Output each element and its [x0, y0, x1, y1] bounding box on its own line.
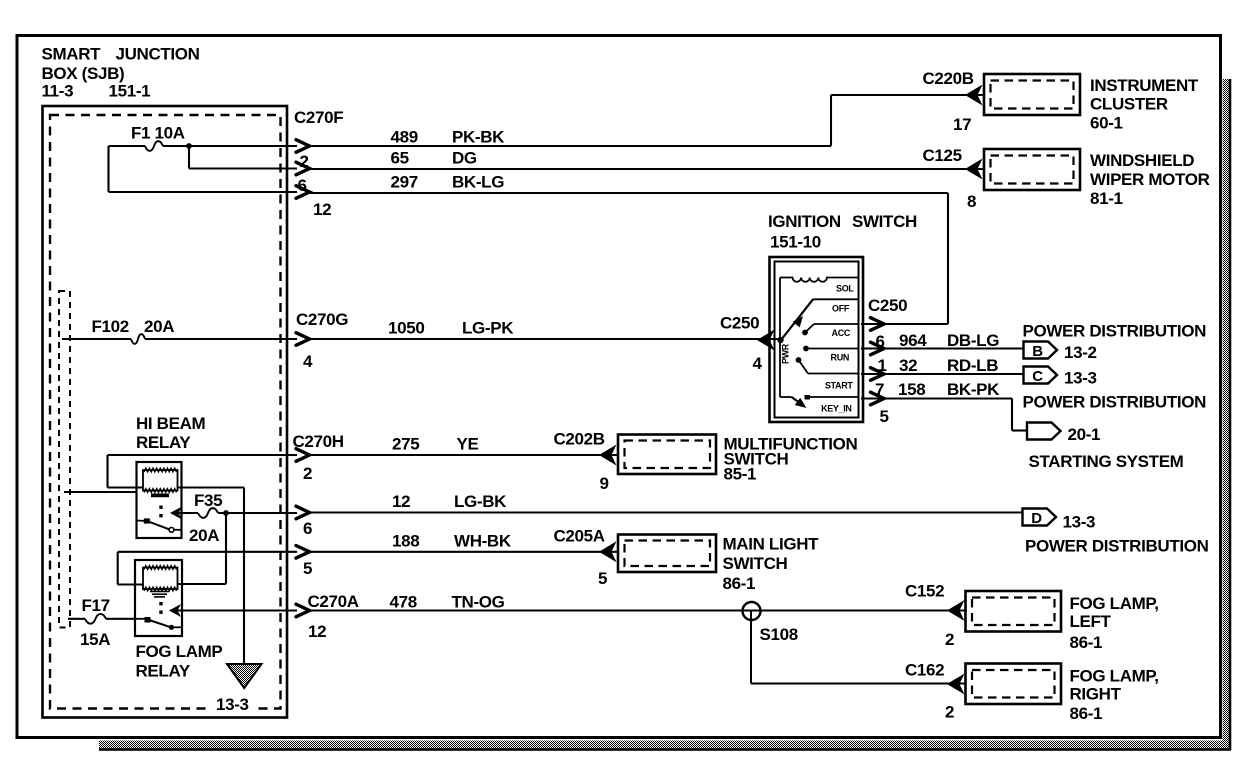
svg-text:ACC: ACC	[832, 328, 851, 338]
svg-text:POWER DISTRIBUTION: POWER DISTRIBUTION	[1023, 393, 1207, 412]
svg-text:LG-PK: LG-PK	[462, 319, 514, 338]
svg-text:7: 7	[875, 380, 884, 399]
svg-text:LG-BK: LG-BK	[454, 492, 507, 511]
svg-text:13-3: 13-3	[216, 695, 249, 714]
svg-text:POWER DISTRIBUTION: POWER DISTRIBUTION	[1023, 322, 1207, 341]
svg-text:9: 9	[600, 474, 609, 493]
svg-text:POWER DISTRIBUTION: POWER DISTRIBUTION	[1025, 537, 1209, 556]
svg-text:RD-LB: RD-LB	[947, 356, 998, 375]
svg-text:C162: C162	[905, 661, 944, 680]
svg-text:FOG LAMP: FOG LAMP	[136, 642, 223, 661]
svg-text:5: 5	[303, 559, 312, 578]
svg-text:C205A: C205A	[554, 527, 605, 546]
svg-text:C202B: C202B	[554, 430, 605, 449]
svg-text:275: 275	[392, 435, 419, 454]
svg-text:1: 1	[878, 356, 887, 375]
svg-text:60-1: 60-1	[1090, 114, 1123, 133]
svg-text:17: 17	[953, 115, 971, 134]
svg-text:C250: C250	[868, 296, 907, 315]
svg-text:DG: DG	[452, 149, 477, 168]
svg-text:PWR: PWR	[781, 343, 791, 364]
svg-text:C250: C250	[720, 314, 759, 333]
svg-text:6: 6	[303, 519, 312, 538]
svg-text:BK-PK: BK-PK	[947, 380, 1000, 399]
svg-text:478: 478	[390, 593, 417, 612]
svg-text:C: C	[1032, 368, 1043, 385]
svg-text:6: 6	[876, 332, 885, 351]
svg-text:F35: F35	[194, 491, 222, 510]
svg-text:FOG LAMP,: FOG LAMP,	[1070, 594, 1159, 613]
svg-text:158: 158	[898, 380, 925, 399]
svg-text:13-2: 13-2	[1064, 343, 1097, 362]
svg-text:STARTING SYSTEM: STARTING SYSTEM	[1029, 452, 1184, 471]
svg-text:IGNITION: IGNITION	[768, 212, 841, 231]
svg-text:489: 489	[391, 128, 418, 147]
svg-text:CLUSTER: CLUSTER	[1090, 95, 1168, 114]
svg-text:SWITCH: SWITCH	[723, 554, 788, 573]
svg-text:WIPER MOTOR: WIPER MOTOR	[1090, 170, 1210, 189]
svg-text:13-3: 13-3	[1064, 369, 1097, 388]
svg-text:86-1: 86-1	[723, 574, 756, 593]
svg-text:HI BEAM: HI BEAM	[136, 414, 206, 433]
svg-text:BK-LG: BK-LG	[452, 173, 504, 192]
svg-text:C270G: C270G	[296, 310, 348, 329]
svg-text:20A: 20A	[144, 317, 174, 336]
svg-text:FOG LAMP,: FOG LAMP,	[1070, 667, 1159, 686]
svg-text:86-1: 86-1	[1070, 704, 1103, 723]
svg-text:151-1: 151-1	[109, 82, 151, 101]
svg-text:85-1: 85-1	[724, 465, 757, 484]
svg-text:C270A: C270A	[308, 592, 359, 611]
svg-text:TN-OG: TN-OG	[452, 593, 505, 612]
svg-text:WH-BK: WH-BK	[454, 532, 512, 551]
svg-text:12: 12	[392, 492, 410, 511]
svg-text:151-10: 151-10	[770, 233, 821, 252]
svg-text:8: 8	[967, 192, 976, 211]
svg-text:2: 2	[945, 630, 954, 649]
svg-text:F17: F17	[82, 596, 110, 615]
svg-text:15A: 15A	[80, 630, 110, 649]
svg-text:1050: 1050	[388, 319, 424, 338]
svg-text:INSTRUMENT: INSTRUMENT	[1090, 76, 1199, 95]
svg-text:DB-LG: DB-LG	[947, 331, 999, 350]
svg-text:SMART: SMART	[42, 45, 102, 64]
svg-text:2: 2	[300, 152, 309, 171]
svg-text:S108: S108	[760, 625, 798, 644]
svg-text:12: 12	[308, 622, 326, 641]
svg-text:81-1: 81-1	[1090, 189, 1123, 208]
svg-text:RIGHT: RIGHT	[1070, 685, 1122, 704]
svg-text:MAIN LIGHT: MAIN LIGHT	[723, 535, 820, 554]
svg-text:188: 188	[392, 532, 419, 551]
svg-text:32: 32	[899, 356, 917, 375]
svg-text:6: 6	[298, 176, 307, 195]
svg-text:START: START	[825, 381, 853, 391]
svg-text:B: B	[1032, 343, 1043, 360]
svg-text:C270H: C270H	[293, 432, 344, 451]
svg-text:SWITCH: SWITCH	[852, 212, 917, 231]
svg-text:WINDSHIELD: WINDSHIELD	[1090, 151, 1194, 170]
svg-text:65: 65	[391, 149, 409, 168]
svg-text:F1 10A: F1 10A	[131, 124, 185, 143]
svg-text:D: D	[1031, 510, 1042, 527]
svg-text:RELAY: RELAY	[136, 662, 191, 681]
svg-text:13-3: 13-3	[1063, 513, 1096, 532]
svg-text:2: 2	[303, 464, 312, 483]
svg-text:4: 4	[303, 352, 313, 371]
svg-text:F102: F102	[92, 317, 129, 336]
svg-text:964: 964	[899, 331, 927, 350]
svg-text:5: 5	[880, 407, 889, 426]
svg-text:KEY_IN: KEY_IN	[821, 404, 851, 414]
svg-text:JUNCTION: JUNCTION	[116, 45, 200, 64]
svg-text:LEFT: LEFT	[1070, 612, 1112, 631]
svg-text:C270F: C270F	[294, 108, 343, 127]
svg-text:C152: C152	[905, 582, 944, 601]
svg-text:5: 5	[598, 569, 607, 588]
svg-text:20A: 20A	[189, 526, 219, 545]
svg-text:BOX (SJB): BOX (SJB)	[42, 64, 125, 83]
svg-text:20-1: 20-1	[1068, 425, 1101, 444]
svg-text:SOL: SOL	[836, 284, 854, 294]
svg-text:RELAY: RELAY	[136, 433, 191, 452]
svg-text:86-1: 86-1	[1070, 633, 1103, 652]
svg-text:4: 4	[753, 354, 763, 373]
svg-text:PK-BK: PK-BK	[452, 128, 505, 147]
svg-text:11-3: 11-3	[42, 82, 74, 101]
svg-text:2: 2	[945, 703, 954, 722]
svg-text:RUN: RUN	[831, 353, 849, 363]
svg-text:12: 12	[313, 200, 331, 219]
svg-text:OFF: OFF	[832, 304, 850, 314]
svg-text:YE: YE	[457, 435, 479, 454]
svg-text:297: 297	[391, 173, 418, 192]
svg-text:C125: C125	[923, 146, 962, 165]
svg-text:C220B: C220B	[923, 69, 974, 88]
